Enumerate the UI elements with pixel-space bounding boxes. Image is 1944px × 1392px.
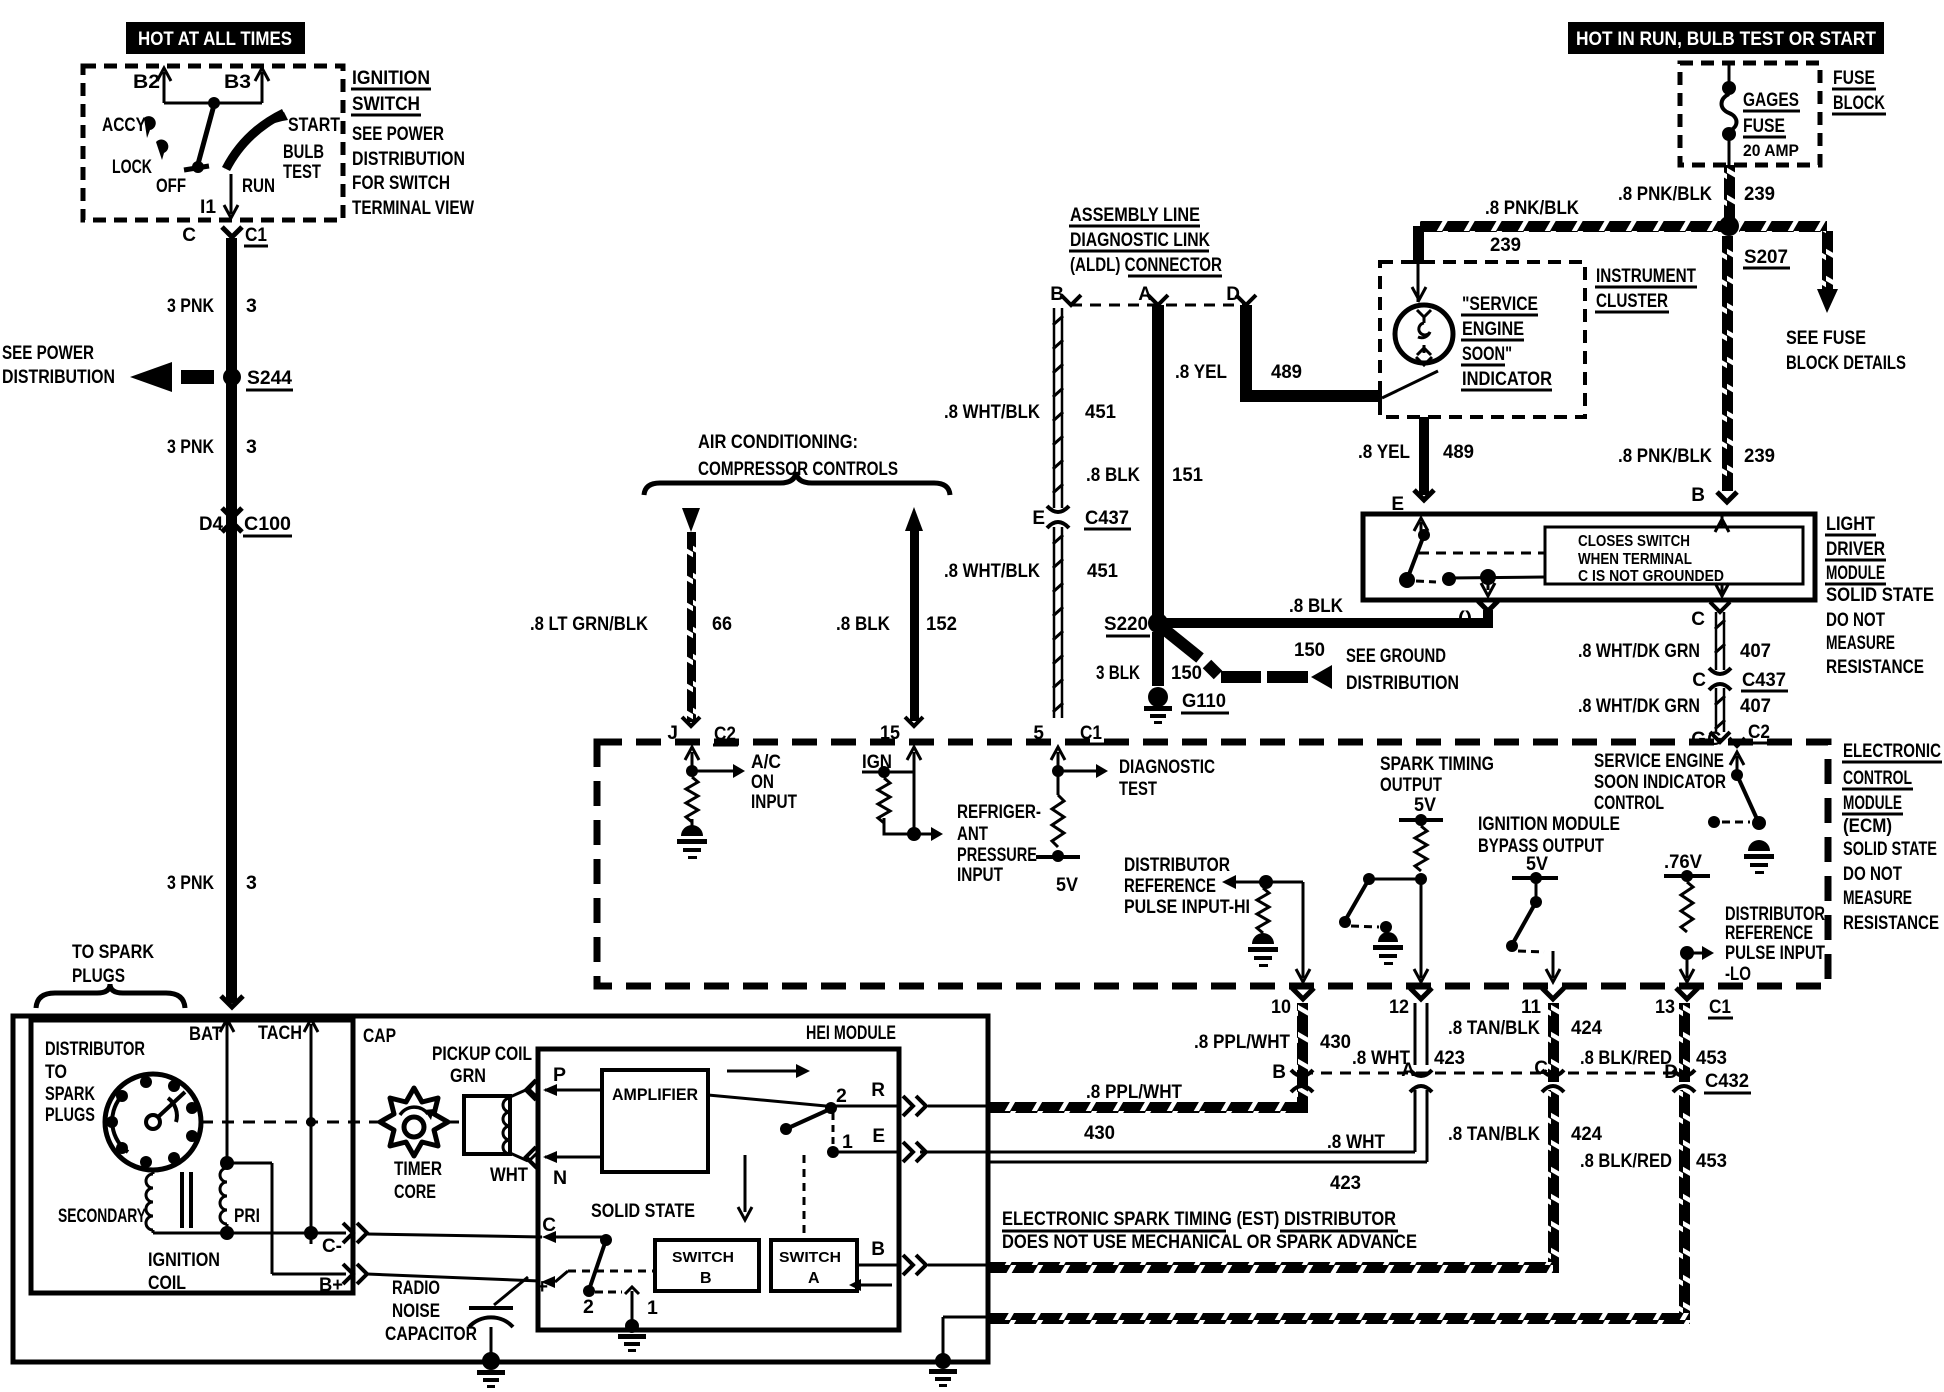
svg-text:OFF: OFF — [156, 175, 186, 197]
svg-text:20 AMP: 20 AMP — [1743, 141, 1799, 160]
svg-text:.8 BLK: .8 BLK — [1086, 465, 1140, 486]
svg-text:LOCK: LOCK — [112, 156, 152, 178]
svg-text:WHT: WHT — [490, 1164, 528, 1186]
svg-text:MEASURE: MEASURE — [1826, 632, 1895, 654]
svg-text:N: N — [553, 1167, 567, 1189]
svg-text:B+: B+ — [319, 1275, 343, 1296]
svg-text:407: 407 — [1740, 695, 1771, 717]
svg-text:.8 BLK: .8 BLK — [1289, 595, 1343, 617]
svg-text:DISTRIBUTION: DISTRIBUTION — [352, 148, 465, 170]
svg-text:423: 423 — [1330, 1172, 1361, 1194]
svg-text:451: 451 — [1085, 401, 1116, 423]
svg-text:DO NOT: DO NOT — [1826, 609, 1885, 631]
svg-text:C IS NOT GROUNDED: C IS NOT GROUNDED — [1578, 568, 1724, 585]
svg-text:S220: S220 — [1104, 614, 1148, 635]
svg-text:DISTRIBUTION: DISTRIBUTION — [1346, 672, 1459, 694]
svg-text:424: 424 — [1571, 1123, 1602, 1145]
svg-text:INSTRUMENT: INSTRUMENT — [1596, 265, 1696, 287]
svg-text:SERVICE ENGINE: SERVICE ENGINE — [1594, 750, 1724, 772]
svg-text:.8 PNK/BLK: .8 PNK/BLK — [1485, 197, 1579, 219]
svg-text:423: 423 — [1434, 1047, 1465, 1069]
svg-text:PULSE INPUT-HI: PULSE INPUT-HI — [1124, 896, 1250, 918]
svg-text:A/C: A/C — [751, 751, 781, 773]
svg-text:SEE GROUND: SEE GROUND — [1346, 645, 1446, 667]
svg-text:.8 PPL/WHT: .8 PPL/WHT — [1194, 1032, 1290, 1053]
svg-text:S244: S244 — [247, 367, 292, 389]
svg-text:ELECTRONIC SPARK TIMING (EST): ELECTRONIC SPARK TIMING (EST) DISTRIBUTO… — [1002, 1208, 1396, 1230]
svg-text:.8 PPL/WHT: .8 PPL/WHT — [1086, 1081, 1182, 1103]
svg-text:TO: TO — [45, 1061, 67, 1083]
svg-text:IGNITION: IGNITION — [148, 1249, 220, 1271]
svg-text:5V: 5V — [1526, 853, 1548, 875]
svg-text:RADIO: RADIO — [392, 1277, 440, 1299]
svg-text:B: B — [700, 1270, 712, 1287]
svg-text:DO NOT: DO NOT — [1843, 863, 1902, 885]
svg-text:HEI MODULE: HEI MODULE — [806, 1022, 896, 1044]
svg-text:SWITCH: SWITCH — [779, 1249, 841, 1266]
svg-text:SEE POWER: SEE POWER — [2, 342, 94, 364]
svg-text:NOISE: NOISE — [392, 1300, 440, 1322]
svg-text:P: P — [553, 1064, 566, 1086]
svg-text:WHEN TERMINAL: WHEN TERMINAL — [1578, 551, 1692, 568]
svg-text:430: 430 — [1320, 1031, 1351, 1053]
svg-text:B2: B2 — [133, 71, 160, 93]
svg-text:SPARK TIMING: SPARK TIMING — [1380, 753, 1494, 775]
svg-text:TERMINAL VIEW: TERMINAL VIEW — [352, 197, 474, 219]
svg-text:C432: C432 — [1705, 1070, 1749, 1092]
svg-text:.8 WHT/DK GRN: .8 WHT/DK GRN — [1578, 696, 1700, 717]
svg-text:C: C — [182, 225, 196, 246]
svg-text:ASSEMBLY LINE: ASSEMBLY LINE — [1070, 204, 1200, 226]
svg-text:REFRIGER-: REFRIGER- — [957, 801, 1041, 823]
svg-text:CLUSTER: CLUSTER — [1596, 290, 1668, 312]
svg-text:REFERENCE: REFERENCE — [1124, 875, 1216, 897]
svg-text:CLOSES SWITCH: CLOSES SWITCH — [1578, 533, 1690, 550]
svg-text:.8 PNK/BLK: .8 PNK/BLK — [1618, 184, 1712, 205]
svg-text:PLUGS: PLUGS — [72, 965, 125, 987]
svg-text:S207: S207 — [1744, 246, 1788, 268]
svg-text:ON: ON — [751, 771, 774, 793]
svg-text:SOON INDICATOR: SOON INDICATOR — [1594, 771, 1726, 793]
svg-text:5V: 5V — [1414, 794, 1436, 816]
svg-text:B3: B3 — [224, 71, 251, 93]
svg-text:REFERENCE: REFERENCE — [1725, 922, 1813, 944]
svg-text:C: C — [1691, 609, 1705, 630]
svg-text:3 BLK: 3 BLK — [1096, 663, 1140, 684]
svg-text:AMPLIFIER: AMPLIFIER — [612, 1085, 698, 1104]
svg-text:SECONDARY: SECONDARY — [58, 1205, 146, 1227]
svg-text:3: 3 — [246, 872, 257, 894]
svg-text:.8 YEL: .8 YEL — [1175, 361, 1227, 383]
svg-text:DISTRIBUTION: DISTRIBUTION — [2, 366, 115, 388]
svg-text:150: 150 — [1294, 639, 1325, 661]
svg-text:D4: D4 — [199, 513, 223, 535]
svg-text:.8 BLK: .8 BLK — [836, 614, 890, 635]
svg-text:3 PNK: 3 PNK — [167, 437, 214, 458]
svg-text:451: 451 — [1087, 560, 1118, 582]
svg-text:CONTROL: CONTROL — [1594, 792, 1664, 814]
svg-text:RUN: RUN — [242, 175, 275, 197]
svg-text:SOLID STATE: SOLID STATE — [1843, 838, 1937, 860]
svg-text:C-: C- — [322, 1236, 342, 1257]
svg-text:CONTROL: CONTROL — [1843, 767, 1912, 789]
svg-text:.8 WHT/BLK: .8 WHT/BLK — [944, 561, 1040, 582]
svg-text:B: B — [1691, 485, 1705, 506]
svg-text:CORE: CORE — [394, 1181, 436, 1203]
svg-text:5V: 5V — [1056, 874, 1078, 896]
svg-text:I1: I1 — [200, 196, 216, 218]
svg-text:J: J — [667, 723, 678, 744]
svg-text:"SERVICE: "SERVICE — [1462, 293, 1538, 315]
svg-text:3 PNK: 3 PNK — [167, 873, 214, 894]
svg-text:GAGES: GAGES — [1743, 89, 1799, 111]
svg-text:DRIVER: DRIVER — [1826, 538, 1885, 560]
svg-text:10: 10 — [1271, 997, 1291, 1018]
svg-text:(): () — [1458, 609, 1472, 626]
svg-text:.8 LT GRN/BLK: .8 LT GRN/BLK — [530, 614, 648, 635]
svg-text:SWITCH: SWITCH — [352, 93, 420, 115]
svg-text:239: 239 — [1744, 445, 1775, 467]
svg-text:.8 WHT: .8 WHT — [1327, 1132, 1385, 1153]
svg-text:+: + — [536, 1276, 548, 1298]
svg-text:HOT IN RUN, BULB TEST OR START: HOT IN RUN, BULB TEST OR START — [1576, 29, 1876, 50]
svg-text:150: 150 — [1171, 662, 1202, 684]
svg-text:SWITCH: SWITCH — [672, 1249, 734, 1266]
svg-text:.8 TAN/BLK: .8 TAN/BLK — [1448, 1018, 1540, 1039]
svg-text:.8 PNK/BLK: .8 PNK/BLK — [1618, 446, 1712, 467]
svg-text:B: B — [871, 1239, 885, 1260]
svg-text:COIL: COIL — [148, 1272, 186, 1294]
svg-text:SEE POWER: SEE POWER — [352, 123, 444, 145]
svg-text:430: 430 — [1084, 1122, 1115, 1144]
svg-text:PICKUP COIL: PICKUP COIL — [432, 1043, 532, 1065]
svg-text:FOR SWITCH: FOR SWITCH — [352, 172, 450, 194]
svg-text:424: 424 — [1571, 1017, 1602, 1039]
svg-text:ENGINE: ENGINE — [1462, 318, 1524, 340]
svg-text:.8 BLK/RED: .8 BLK/RED — [1580, 1048, 1672, 1069]
svg-text:DOES NOT USE MECHANICAL OR SPA: DOES NOT USE MECHANICAL OR SPARK ADVANCE — [1002, 1231, 1417, 1253]
svg-text:(ALDL) CONNECTOR: (ALDL) CONNECTOR — [1070, 254, 1222, 276]
svg-text:RESISTANCE: RESISTANCE — [1843, 912, 1939, 934]
svg-text:453: 453 — [1696, 1047, 1727, 1069]
svg-text:SPARK: SPARK — [45, 1083, 95, 1105]
svg-text:DISTRIBUTOR: DISTRIBUTOR — [45, 1038, 145, 1060]
svg-text:A: A — [808, 1270, 820, 1287]
svg-text:INPUT: INPUT — [751, 791, 797, 813]
svg-text:MODULE: MODULE — [1843, 792, 1902, 814]
svg-text:DIAGNOSTIC LINK: DIAGNOSTIC LINK — [1070, 229, 1210, 251]
svg-text:239: 239 — [1744, 183, 1775, 205]
svg-text:.8 WHT/BLK: .8 WHT/BLK — [944, 402, 1040, 423]
svg-text:TO SPARK: TO SPARK — [72, 941, 154, 963]
svg-text:CAPACITOR: CAPACITOR — [385, 1323, 477, 1345]
svg-text:.8 BLK/RED: .8 BLK/RED — [1580, 1151, 1672, 1172]
svg-text:152: 152 — [926, 613, 957, 635]
svg-text:ELECTRONIC: ELECTRONIC — [1843, 740, 1941, 762]
svg-text:11: 11 — [1521, 997, 1541, 1018]
svg-text:3: 3 — [246, 295, 257, 317]
svg-text:SEE FUSE: SEE FUSE — [1786, 327, 1866, 349]
svg-text:489: 489 — [1443, 441, 1474, 463]
svg-text:SOON": SOON" — [1462, 343, 1512, 365]
svg-text:IGNITION: IGNITION — [352, 67, 430, 89]
svg-text:.8 YEL: .8 YEL — [1358, 442, 1410, 463]
svg-text:15: 15 — [880, 723, 900, 744]
svg-text:PULSE INPUT: PULSE INPUT — [1725, 942, 1825, 964]
svg-text:C1: C1 — [1709, 996, 1731, 1018]
svg-text:BLOCK: BLOCK — [1833, 92, 1885, 114]
svg-text:BAT: BAT — [189, 1024, 222, 1045]
svg-text:2: 2 — [836, 1085, 847, 1107]
svg-text:489: 489 — [1271, 361, 1302, 383]
svg-text:TACH: TACH — [258, 1022, 302, 1044]
svg-text:C1: C1 — [245, 224, 267, 246]
svg-text:TEST: TEST — [1119, 778, 1157, 800]
svg-text:1: 1 — [842, 1131, 853, 1153]
svg-text:ANT: ANT — [957, 823, 988, 845]
svg-text:BLOCK DETAILS: BLOCK DETAILS — [1786, 352, 1906, 374]
svg-text:C2: C2 — [714, 723, 736, 745]
svg-text:DIAGNOSTIC: DIAGNOSTIC — [1119, 756, 1215, 778]
svg-text:OUTPUT: OUTPUT — [1380, 774, 1442, 796]
svg-text:1: 1 — [647, 1297, 658, 1319]
svg-text:C437: C437 — [1742, 669, 1786, 691]
svg-text:151: 151 — [1172, 464, 1203, 486]
svg-text:INPUT: INPUT — [957, 864, 1003, 886]
svg-text:PRI: PRI — [234, 1205, 260, 1227]
svg-text:G110: G110 — [1182, 690, 1226, 712]
svg-text:C: C — [1692, 670, 1706, 691]
svg-text:12: 12 — [1389, 997, 1409, 1018]
svg-text:GRN: GRN — [450, 1065, 486, 1087]
svg-text:.8 WHT/DK GRN: .8 WHT/DK GRN — [1578, 641, 1700, 662]
svg-text:66: 66 — [712, 613, 732, 635]
svg-text:TIMER: TIMER — [394, 1158, 442, 1180]
svg-text:G: G — [1707, 729, 1722, 750]
svg-text:RESISTANCE: RESISTANCE — [1826, 656, 1924, 678]
svg-text:5: 5 — [1033, 723, 1044, 744]
svg-text:E: E — [1032, 508, 1045, 529]
svg-text:239: 239 — [1490, 234, 1521, 256]
svg-text:B: B — [1272, 1062, 1286, 1083]
svg-text:PLUGS: PLUGS — [45, 1104, 95, 1126]
svg-text:INDICATOR: INDICATOR — [1462, 368, 1552, 390]
svg-text:13: 13 — [1655, 997, 1675, 1018]
svg-text:3 PNK: 3 PNK — [167, 296, 214, 317]
svg-text:453: 453 — [1696, 1150, 1727, 1172]
svg-text:HOT AT ALL TIMES: HOT AT ALL TIMES — [138, 29, 292, 50]
svg-text:DISTRIBUTOR: DISTRIBUTOR — [1124, 854, 1230, 876]
svg-text:IGNITION MODULE: IGNITION MODULE — [1478, 813, 1620, 835]
svg-text:.8 WHT: .8 WHT — [1352, 1048, 1410, 1069]
svg-text:.76V: .76V — [1664, 851, 1702, 873]
svg-text:MODULE: MODULE — [1826, 562, 1885, 584]
svg-text:START: START — [288, 114, 340, 136]
svg-text:MEASURE: MEASURE — [1843, 887, 1912, 909]
svg-text:407: 407 — [1740, 640, 1771, 662]
svg-text:AIR CONDITIONING:: AIR CONDITIONING: — [698, 431, 858, 453]
svg-text:CAP: CAP — [363, 1025, 396, 1047]
svg-text:-LO: -LO — [1725, 963, 1751, 985]
svg-text:E: E — [872, 1126, 885, 1147]
svg-text:PRESSURE: PRESSURE — [957, 844, 1037, 866]
svg-text:FUSE: FUSE — [1833, 67, 1875, 89]
svg-text:C437: C437 — [1085, 507, 1129, 529]
svg-text:ACCY: ACCY — [102, 114, 146, 136]
svg-text:R: R — [871, 1080, 885, 1101]
svg-text:SOLID STATE: SOLID STATE — [1826, 584, 1934, 606]
svg-text:BULB: BULB — [283, 141, 324, 163]
svg-text:3: 3 — [246, 436, 257, 458]
svg-text:C100: C100 — [244, 513, 291, 535]
svg-text:SOLID STATE: SOLID STATE — [591, 1200, 695, 1222]
svg-text:C1: C1 — [1080, 722, 1102, 744]
svg-text:.8 TAN/BLK: .8 TAN/BLK — [1448, 1124, 1540, 1145]
svg-text:2: 2 — [583, 1296, 594, 1318]
svg-text:(ECM): (ECM) — [1843, 815, 1892, 837]
svg-text:FUSE: FUSE — [1743, 115, 1785, 137]
svg-text:LIGHT: LIGHT — [1826, 513, 1875, 535]
svg-text:TEST: TEST — [283, 161, 321, 183]
